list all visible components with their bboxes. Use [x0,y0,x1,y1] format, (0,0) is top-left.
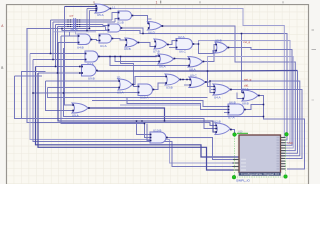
wire [90,10,97,12]
and-gate U10:B [150,128,168,143]
wire [15,75,43,77]
svg-text:U9:A: U9:A [72,114,79,118]
and-gate U10:A [138,84,155,100]
wire [15,76,217,129]
wire [30,54,233,164]
wire [131,16,149,24]
wire stub [237,93,244,99]
wire [193,43,199,45]
svg-text:Configurable Digital IO: Configurable Digital IO [241,173,279,176]
svg-text:U8:A: U8:A [189,67,196,71]
component C1 vertical element [70,14,79,31]
wire net U [258,96,305,170]
wire [174,58,190,61]
wire [153,83,167,90]
wire net d [38,72,82,74]
wire [230,130,235,134]
svg-text:U7:A: U7:A [228,115,235,119]
wire [147,124,152,141]
wire [52,22,54,60]
wire [61,35,79,37]
svg-text:U9:C: U9:C [190,73,198,77]
svg-text:U3:A: U3:A [117,90,124,94]
wire [46,81,74,111]
svg-text:rst_q: rst_q [244,40,251,44]
and-gate U1:C [108,24,123,32]
wire [110,57,190,66]
svg-text:U6:C: U6:C [179,50,187,54]
wire net row4 [58,26,106,28]
svg-text:U2:A: U2:A [242,87,249,91]
wire net K [98,55,160,58]
wire net i [61,36,152,138]
and-gate U1:A [99,34,114,48]
chip U10 Configurable Digital IO [239,135,281,176]
svg-text:U5:B: U5:B [215,38,222,42]
or-gate U2:B [214,119,232,134]
wire [65,7,74,106]
wire [86,9,88,31]
svg-text:U10: U10 [288,141,294,145]
and-gate U7:A [228,100,246,119]
chip right pins [277,137,286,170]
wire net F5 [208,57,294,149]
svg-text:U9:B: U9:B [88,76,95,80]
svg-text:U6:A: U6:A [159,64,166,68]
wire net e [46,80,120,82]
svg-text:U7:B: U7:B [153,49,160,53]
wire [76,29,85,35]
wire [57,27,59,74]
wire net F4 [228,48,293,146]
wire stub [148,18,152,20]
wire net F2 [62,29,287,141]
wire stub [211,89,214,91]
svg-text:1: 1 [156,0,158,4]
wire net l [166,138,233,160]
wire stub [169,47,177,49]
wire [138,43,156,47]
svg-text:U1:B: U1:B [117,20,124,24]
wire [242,34,244,93]
wire net f [48,87,120,89]
wire [203,45,217,62]
svg-text:U1:A: U1:A [100,44,107,48]
and-gate U1:B [117,11,133,24]
wire [210,81,214,93]
wire [180,79,192,81]
wire net F3 [199,41,291,143]
wire [132,77,167,85]
green probe dot 3 [232,175,236,179]
wire net c [36,66,83,68]
wire [58,42,79,44]
wire [70,32,79,36]
wire net F6 [162,26,296,151]
svg-text:U6:B: U6:B [229,100,236,104]
svg-text:1:1: 1:1 [112,6,116,10]
wire net k [64,48,264,117]
wire [50,20,52,54]
wire [87,8,96,10]
wire net top [65,6,97,8]
wire net E [27,29,216,126]
wire [208,71,215,87]
or-gate U7:B [153,39,169,53]
svg-text:U4:B: U4:B [77,45,84,49]
wire stub [224,112,229,114]
wire net T [244,105,264,110]
wire [115,57,160,62]
wire net F1 [109,9,284,138]
chip left pins [233,159,246,171]
or-gate U8:B [242,87,260,106]
wire net row2 [53,21,115,23]
svg-text:U10: U10 [238,131,243,134]
svg-text:4HC00: 4HC00 [71,29,79,32]
wire net m [120,104,201,106]
svg-text:U8:B: U8:B [242,101,249,105]
wire [92,101,229,107]
wire [121,57,140,87]
or-gate U4:A2 [213,84,232,99]
svg-text:U6:D: U6:D [148,30,156,34]
or-gate U5:B [215,38,229,53]
wire [89,11,91,29]
or-gate U3:A [117,75,134,94]
wire net F9 [230,90,302,159]
wire [199,44,217,54]
svg-text:U5:A: U5:A [97,13,104,17]
svg-text:U4:A: U4:A [214,95,221,99]
wire [167,41,177,45]
wire [55,25,57,67]
and-gate U2:A [176,35,195,54]
green probe dot 4 [284,175,288,179]
wire [137,121,152,135]
wire [33,93,233,167]
or-gate U9:A [72,103,90,118]
wire [127,98,229,110]
wire [281,71,298,154]
component pin junction dots [67,19,68,20]
or-gate U6:B [124,38,139,51]
svg-text:U10:B: U10:B [153,128,161,132]
wire net F8 [205,81,300,156]
wire stub [184,84,191,86]
wire net F7 [97,70,298,73]
or-gate U8:A [188,57,204,72]
or-gate U6:D [148,22,164,35]
svg-text:C?: C? [70,14,74,18]
or-gate U6:A [158,54,175,68]
green probe dot 2 [285,132,289,136]
border frame [0,0,320,4]
svg-text:U10:A: U10:A [140,96,148,100]
svg-text:set_q: set_q [244,77,252,81]
wire [32,60,34,94]
junction dots [86,30,88,32]
wire net g [22,72,46,119]
wire net h [58,43,216,133]
wire [120,28,143,34]
wire net a [30,53,86,55]
svg-text:U2:B: U2:B [214,119,221,123]
and-gate U9:B [81,65,98,81]
sheet background [0,0,320,184]
wire net row3 [56,24,104,26]
wire [48,88,208,98]
wire [53,31,96,33]
wire [38,73,233,170]
green probe dot 1 [233,133,237,137]
wire [33,92,139,95]
wire net b [33,59,86,61]
wire [111,39,126,41]
wire [91,40,100,41]
and-gate U4:B [77,34,92,49]
wire net row1 [51,19,113,21]
wire net j [89,108,165,121]
svg-text:B: B [1,66,3,70]
or-gate U5:A [95,4,111,17]
and-gate U4:A [85,51,100,66]
svg-text:SIMPL_IO: SIMPL_IO [236,179,251,183]
or-gate U9:C [189,73,207,87]
svg-text:clk1: clk1 [244,83,249,87]
svg-text:U2:A: U2:A [178,35,185,39]
svg-text:U3:B: U3:B [166,85,173,89]
wire [36,67,240,158]
logic probe dashes [235,135,286,178]
svg-text:U6:B: U6:B [124,47,131,51]
or-gate U3:B [165,74,181,89]
